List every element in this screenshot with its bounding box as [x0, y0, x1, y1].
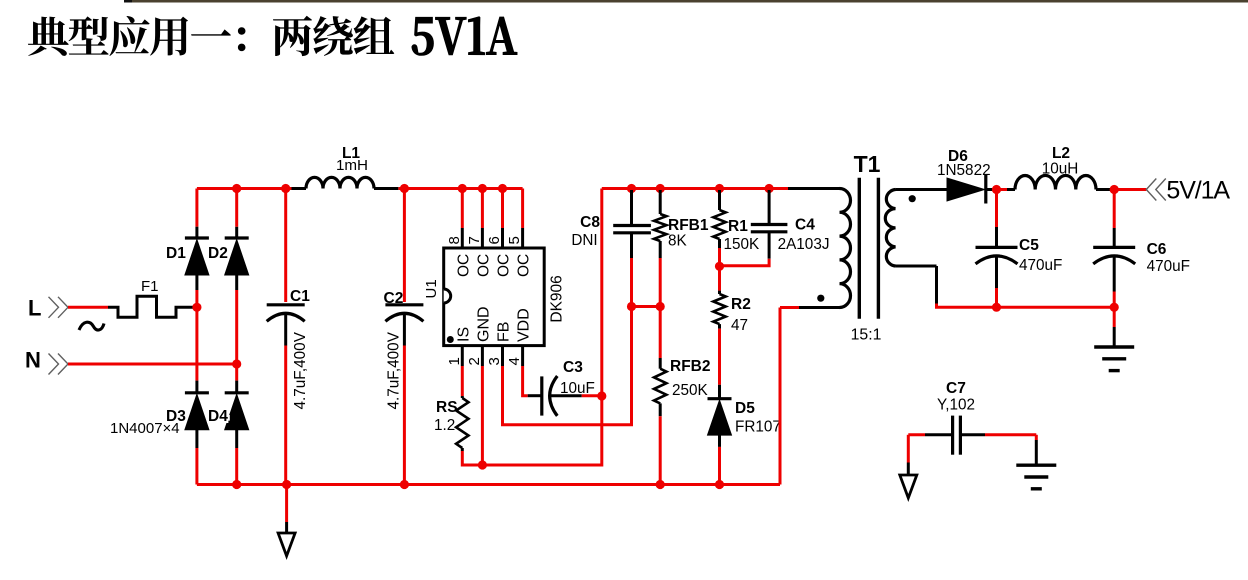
svg-text:2A103J: 2A103J	[778, 236, 830, 253]
svg-text:5V/1A: 5V/1A	[1166, 176, 1230, 204]
svg-text:4.7uF,400V: 4.7uF,400V	[292, 331, 309, 409]
svg-text:VDD: VDD	[516, 308, 533, 342]
svg-text:D4: D4	[208, 408, 228, 425]
svg-text:3: 3	[486, 357, 503, 365]
svg-text:OC: OC	[516, 254, 533, 277]
svg-text:1.2: 1.2	[434, 417, 455, 434]
svg-text:150K: 150K	[724, 236, 761, 253]
svg-text:C8: C8	[580, 214, 600, 231]
svg-text:10uF: 10uF	[560, 380, 595, 397]
svg-text:IS: IS	[455, 327, 472, 342]
svg-text:D2: D2	[208, 245, 228, 262]
svg-text:15:1: 15:1	[851, 327, 882, 344]
svg-text:RS: RS	[436, 399, 458, 416]
svg-text:N: N	[25, 348, 41, 373]
svg-text:1N4007×4: 1N4007×4	[110, 420, 180, 437]
svg-text:1N5822: 1N5822	[937, 162, 991, 179]
svg-text:OC: OC	[496, 254, 513, 277]
svg-text:L: L	[28, 296, 41, 321]
svg-text:RFB1: RFB1	[668, 217, 709, 234]
svg-text:250K: 250K	[672, 382, 709, 399]
svg-text:F1: F1	[141, 278, 159, 295]
svg-text:7: 7	[466, 236, 483, 244]
svg-text:4.7uF,400V: 4.7uF,400V	[385, 331, 402, 409]
svg-text:5: 5	[506, 236, 523, 244]
svg-text:R2: R2	[731, 296, 751, 313]
svg-text:1: 1	[446, 357, 463, 365]
svg-text:D5: D5	[735, 400, 755, 417]
svg-text:47: 47	[731, 317, 748, 334]
svg-text:2: 2	[466, 357, 483, 365]
svg-text:OC: OC	[475, 254, 492, 277]
svg-text:C7: C7	[946, 380, 966, 397]
svg-text:4: 4	[506, 357, 523, 365]
svg-text:FB: FB	[496, 322, 513, 342]
svg-text:C4: C4	[795, 217, 815, 234]
svg-text:FR107: FR107	[735, 419, 781, 436]
svg-text:470uF: 470uF	[1147, 258, 1190, 275]
svg-text:1mH: 1mH	[336, 157, 368, 174]
svg-text:8K: 8K	[668, 233, 688, 250]
svg-text:DK906: DK906	[548, 275, 565, 322]
svg-text:10uH: 10uH	[1042, 161, 1079, 178]
svg-text:470uF: 470uF	[1019, 257, 1062, 274]
svg-text:C3: C3	[563, 359, 583, 376]
svg-text:U1: U1	[423, 279, 440, 298]
svg-text:C6: C6	[1147, 241, 1167, 258]
svg-text:D1: D1	[166, 245, 186, 262]
svg-text:C1: C1	[290, 288, 310, 305]
svg-text:T1: T1	[854, 151, 881, 177]
svg-text:DNI: DNI	[571, 232, 597, 249]
svg-text:8: 8	[446, 236, 463, 244]
svg-text:6: 6	[486, 236, 503, 244]
svg-text:GND: GND	[475, 306, 492, 342]
svg-text:C5: C5	[1019, 237, 1039, 254]
svg-text:OC: OC	[455, 254, 472, 277]
svg-text:R1: R1	[728, 218, 748, 235]
svg-text:RFB2: RFB2	[670, 358, 710, 375]
svg-text:C2: C2	[384, 290, 404, 307]
svg-text:Y,102: Y,102	[937, 397, 975, 414]
svg-text:L2: L2	[1052, 145, 1070, 162]
